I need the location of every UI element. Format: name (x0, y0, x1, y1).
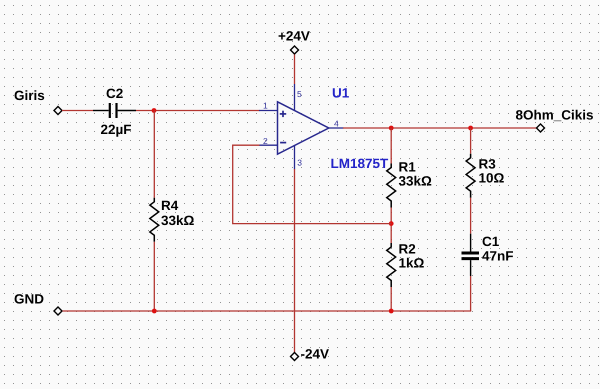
svg-text:5: 5 (297, 89, 302, 99)
svg-text:4: 4 (334, 119, 339, 129)
resistor R3 10 ohm (466, 154, 504, 198)
svg-text:+24V: +24V (278, 29, 310, 44)
wire op-amp output (343, 127, 537, 129)
resistor R4 33k (150, 198, 195, 242)
svg-text:Giris: Giris (14, 88, 45, 103)
terminal 8Ohm_Cikis (537, 124, 545, 132)
svg-text:R4: R4 (161, 198, 179, 213)
svg-text:2: 2 (263, 136, 268, 146)
op-amp U1 (278, 86, 390, 172)
wire +24V to pin 5 (294, 55, 296, 85)
junction output/R1 (389, 126, 394, 131)
wire R1 to R2 (390, 208, 392, 244)
svg-text:C1: C1 (482, 234, 500, 249)
svg-text:10Ω: 10Ω (479, 171, 505, 186)
svg-text:-24V: -24V (301, 347, 330, 362)
terminal GND (54, 307, 62, 315)
junction R4/ground rail (152, 309, 157, 314)
resistor R1 33k (387, 160, 432, 208)
pin 2 stub (259, 144, 278, 146)
svg-text:LM1875T: LM1875T (331, 156, 390, 171)
junction at C2/R4 (152, 108, 157, 113)
terminal -24V (291, 353, 299, 361)
pin 3 stub (294, 145, 296, 169)
pin 1 stub (259, 110, 278, 112)
wire C1 to ground rail (470, 276, 472, 311)
wire R3 to C1 (470, 198, 472, 234)
svg-text:R3: R3 (479, 157, 497, 172)
svg-text:8Ohm_Cikis: 8Ohm_Cikis (516, 108, 594, 123)
wire feedback to pin 2 (233, 145, 392, 223)
wire junction down to R4 (153, 111, 155, 198)
wire R2 to ground rail (390, 287, 392, 311)
junction feedback (389, 221, 394, 226)
svg-text:R1: R1 (399, 160, 417, 175)
wire C2 to op-amp pin 1 (136, 110, 260, 112)
capacitor C1 47nF (462, 234, 514, 276)
terminal +24V (291, 46, 299, 54)
wire output junction to R3 (470, 128, 472, 154)
svg-text:3: 3 (297, 158, 302, 168)
wire input to C2 (62, 110, 93, 112)
svg-text:1: 1 (263, 101, 268, 111)
junction R2/ground rail (389, 309, 394, 314)
svg-text:1kΩ: 1kΩ (399, 256, 425, 271)
svg-text:33kΩ: 33kΩ (399, 174, 433, 189)
resistor R2 1k (387, 242, 425, 288)
wire ground rail (63, 310, 472, 312)
svg-text:U1: U1 (332, 86, 350, 101)
terminal Giris (54, 107, 62, 115)
svg-text:33kΩ: 33kΩ (161, 213, 195, 228)
wire pin 3 to -24V (294, 169, 296, 353)
wire R4 to ground rail (153, 242, 155, 311)
pin 5 stub (294, 84, 296, 110)
svg-text:C2: C2 (106, 86, 123, 101)
pin 4 stub (329, 127, 344, 129)
junction output/R3 (468, 126, 473, 131)
svg-text:47nF: 47nF (482, 249, 514, 264)
svg-text:22µF: 22µF (101, 122, 132, 137)
svg-text:GND: GND (14, 292, 44, 307)
capacitor C2 (93, 86, 136, 137)
wire output junction to R1 (390, 128, 392, 164)
svg-text:R2: R2 (399, 242, 416, 257)
